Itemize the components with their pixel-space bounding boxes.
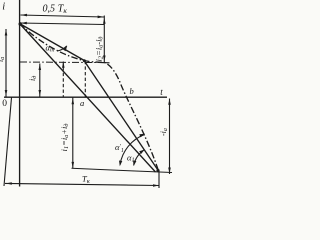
arrowhead i1 dim top [72,98,75,104]
arrowhead left dim bottom [5,90,8,96]
level line -i_a [72,168,173,172]
tangent L4 [84,61,159,171]
arrowhead inner arc lower [133,160,136,166]
i axis [19,0,21,187]
i2 dim vertical [103,16,105,63]
arrowhead outer arc upper [139,134,145,138]
i1 dim lower [72,98,74,169]
svg-text:0: 0 [2,99,7,109]
svg-text:0,5Тк: 0,5Тк [43,4,68,16]
arrowhead Tk right [153,184,159,187]
arrowhead alpha_t arc [63,46,67,52]
apex junction blob [19,22,22,26]
0,5Tk dim line [21,15,105,17]
chord L2 [20,24,85,61]
arrowhead 0,5Tk left [21,14,27,17]
arrowhead i_d dim bottom [39,90,42,96]
mid junction blob [83,59,86,62]
Tk dim line [5,183,160,185]
arrowhead Tk left [6,182,12,185]
right extension of P [158,171,160,188]
riser 1 dashed with arrow [62,62,64,98]
arrowhead i1 dim bottom [72,162,75,168]
right -i_a dim [169,99,171,175]
riser 2 dashed at 0.5Tk [84,61,86,97]
main diagonal L3 [20,24,156,173]
dash-dot i_d level [20,61,104,64]
i_d dim [39,64,41,97]
svg-text:a: a [80,98,84,108]
arrowhead right dim bottom [168,168,171,174]
svg-text:i: i [2,2,5,13]
arrowhead right dim top [168,99,171,105]
apex level line L1 [20,23,105,25]
arrowhead 0,5Tk right [98,16,104,19]
alpha_t arc [57,46,67,51]
left i_a dim [5,29,7,97]
arrowhead left dim top [5,30,8,36]
outer angle arc [120,135,145,165]
arrowhead inner arc upper [139,150,145,155]
arrowhead outer arc lower [119,161,122,167]
i2 bottom tick [100,61,110,63]
left lower extension (slanted) [4,98,12,187]
P junction blob [156,169,159,172]
arrowhead i2 dim bottom [103,56,106,62]
arrowhead L1 left [21,22,27,25]
dash-dot current curve [20,24,159,171]
svg-text:b: b [130,86,134,96]
arrowhead riser 1 up [62,62,65,68]
arrowhead i_d dim top [39,64,42,70]
arrowhead i2 dim top [103,18,106,24]
t axis [4,96,167,98]
inner angle arc [134,150,145,165]
